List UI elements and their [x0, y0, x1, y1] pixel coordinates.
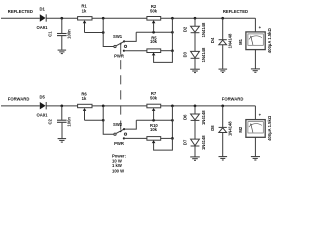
- svg-text:400µA 1.5kΩ: 400µA 1.5kΩ: [267, 27, 272, 53]
- wire to meter M1: [254, 18, 256, 32]
- ground under M2: [251, 157, 260, 160]
- wire D1 to R1: [46, 17, 77, 19]
- ground under C1: [58, 50, 67, 54]
- wire to D6: [194, 106, 196, 114]
- meter M2: [238, 113, 272, 141]
- wire to D4: [222, 18, 224, 39]
- wire D8 to ground: [222, 133, 224, 157]
- svg-text:10k: 10k: [150, 127, 158, 132]
- node junction x172 main bottom: [171, 105, 174, 108]
- svg-text:D5: D5: [40, 94, 46, 99]
- svg-text:C2: C2: [47, 118, 52, 124]
- svg-text:OA91: OA91: [37, 113, 49, 118]
- ground under D3: [190, 69, 200, 72]
- svg-text:D3: D3: [183, 51, 188, 57]
- diode D3 1N4148: [183, 47, 206, 62]
- diode D6 1N4148: [183, 110, 206, 125]
- node R7 wiper junction: [152, 119, 155, 122]
- svg-text:M1: M1: [238, 38, 243, 44]
- svg-text:REFLECTED: REFLECTED: [223, 9, 248, 14]
- node junction D6: [194, 105, 197, 108]
- svg-text:1N4148: 1N4148: [227, 121, 232, 136]
- wire SW2 lever to R7 wiper line: [124, 120, 136, 129]
- node R2 wiper junction: [152, 31, 155, 34]
- wire C1 to ground: [61, 36, 63, 50]
- svg-text:C1: C1: [47, 31, 52, 37]
- wire vertical x172 bottom: [171, 106, 173, 138]
- node junction D8: [221, 105, 224, 108]
- ground under C2: [58, 139, 67, 143]
- ground under D7: [190, 157, 200, 160]
- wire C2 to ground: [61, 123, 63, 139]
- node junction C1: [60, 17, 63, 20]
- svg-text:FORWARD: FORWARD: [8, 96, 30, 101]
- wire D6 to D7: [194, 120, 196, 139]
- mechanical link dashed SW1-SW2: [120, 43, 122, 45]
- svg-text:1k: 1k: [82, 96, 87, 101]
- ground under D8: [219, 157, 228, 160]
- wire M1 to ground: [254, 50, 256, 69]
- capacitor C2: [47, 117, 71, 127]
- node junction x172 on wiper line bottom: [171, 119, 174, 122]
- svg-text:D7: D7: [183, 139, 188, 145]
- node junction D4: [221, 17, 224, 20]
- resistor R2 50k (pot): [147, 4, 161, 32]
- diode D1: [37, 6, 49, 30]
- svg-text:10k: 10k: [150, 39, 158, 44]
- svg-text:SW2: SW2: [113, 122, 123, 127]
- node junction D2: [194, 17, 197, 20]
- meter M1: [238, 25, 272, 53]
- svg-text:50k: 50k: [150, 96, 158, 101]
- node junction C2: [60, 105, 63, 108]
- svg-text:1N4148: 1N4148: [201, 110, 206, 125]
- wire to D2: [194, 18, 196, 26]
- wire R2 to meter branch: [161, 17, 256, 19]
- switch SW1: [113, 34, 127, 58]
- svg-text:OA91: OA91: [37, 25, 49, 30]
- wire down to C1: [61, 18, 63, 33]
- node junction x172 at R5: [171, 49, 174, 52]
- svg-text:100n: 100n: [67, 117, 72, 127]
- svg-text:PWR: PWR: [114, 141, 124, 146]
- wire down to C2: [61, 106, 63, 120]
- resistor R6 1k (pot): [78, 91, 92, 120]
- diode D8 1N4148: [210, 121, 233, 136]
- svg-text:FORWARD: FORWARD: [222, 97, 244, 102]
- svg-text:D6: D6: [183, 114, 188, 120]
- svg-text:D8: D8: [210, 125, 215, 131]
- svg-text:1 kW: 1 kW: [112, 163, 122, 168]
- resistor R5 10k (pot): [147, 36, 173, 63]
- svg-text:1N4148: 1N4148: [227, 33, 232, 48]
- node junction x172 at R10: [171, 137, 174, 140]
- wire R1 wiper to vertical: [85, 32, 104, 34]
- wire vertical to SW1 pole: [103, 18, 114, 46]
- svg-text:100n: 100n: [67, 29, 72, 39]
- svg-text:1N4148: 1N4148: [201, 22, 206, 37]
- wire reflected input: [1, 17, 40, 19]
- wire to meter M2: [254, 106, 256, 120]
- node junction at x103: [102, 17, 105, 20]
- svg-text:1k: 1k: [82, 8, 87, 13]
- wire R6 wiper to vertical: [85, 119, 104, 121]
- diode D4 1N4148: [210, 33, 233, 48]
- capacitor C1: [47, 29, 71, 39]
- node junction at x103 bottom: [102, 105, 105, 108]
- resistor R7 50k (pot): [147, 91, 161, 120]
- wire M2 to ground: [254, 137, 256, 156]
- svg-text:REFLECTED: REFLECTED: [8, 9, 33, 14]
- wire SW1 lever to R2 wiper line: [124, 32, 136, 41]
- wire SW1 lower throw to R5: [124, 50, 147, 52]
- node wiper junction: [102, 31, 105, 34]
- svg-text:D2: D2: [183, 26, 188, 32]
- switch SW2: [113, 122, 127, 146]
- ground under D4: [219, 69, 228, 72]
- svg-text:1N4148: 1N4148: [201, 135, 206, 150]
- wire forward input: [1, 105, 40, 107]
- svg-text:1N4148: 1N4148: [201, 47, 206, 62]
- wire R6 to R7: [92, 105, 147, 107]
- svg-text:SW1: SW1: [113, 34, 123, 39]
- wire D7 to ground: [194, 146, 196, 157]
- wire R7 to meter branch: [161, 105, 256, 107]
- svg-text:M2: M2: [238, 126, 243, 132]
- diode D7 1N4148: [183, 135, 206, 150]
- node junction x172 main: [171, 17, 174, 20]
- wire R2 wiper line: [136, 31, 172, 33]
- wire vertical to SW2 pole: [103, 106, 114, 134]
- svg-text:D1: D1: [40, 6, 46, 11]
- ground under M1: [251, 69, 260, 72]
- wire SW2 lower throw to R10: [124, 137, 147, 139]
- wire D2 to D3: [194, 33, 196, 52]
- wire vertical x172: [171, 18, 173, 51]
- node wiper junction bottom: [102, 119, 105, 122]
- wire D4 to ground: [222, 45, 224, 69]
- resistor R10 10k (pot): [147, 123, 173, 150]
- svg-text:D4: D4: [210, 37, 215, 43]
- svg-text:100 W: 100 W: [112, 169, 124, 174]
- svg-text:400µA 1.5kΩ: 400µA 1.5kΩ: [267, 115, 272, 141]
- wire R1 to R2: [92, 17, 147, 19]
- resistor R1 1k (pot): [78, 4, 92, 33]
- wire D5 to R6: [46, 105, 77, 107]
- svg-text:PWR: PWR: [114, 53, 124, 58]
- wire to D8: [222, 106, 224, 127]
- wire R7 wiper line: [136, 119, 172, 121]
- svg-text:50k: 50k: [150, 8, 158, 13]
- diode D5: [37, 94, 49, 117]
- wire D3 to ground: [194, 58, 196, 69]
- diode D2 1N4148: [183, 22, 206, 37]
- text power list: [112, 153, 126, 173]
- node junction x172 on wiper line: [171, 31, 174, 34]
